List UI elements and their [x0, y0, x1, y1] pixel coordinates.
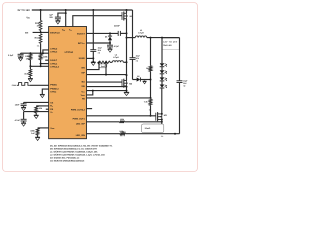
wire VREF	[38, 127, 49, 129]
wire SGND jog	[87, 91, 93, 95]
diode D1	[109, 33, 111, 36]
svg-text:7.3k: 7.3k	[144, 101, 149, 104]
wire LED link 2	[161, 74, 163, 78]
svg-text:EN: EN	[25, 31, 28, 34]
svg-text:L2: L2	[115, 53, 118, 56]
inductor L1 0.7uH	[135, 36, 147, 38]
ground for C4	[108, 48, 113, 50]
wire output node	[147, 37, 180, 39]
diode D2	[137, 77, 141, 81]
svg-text:CTRL3: CTRL3	[50, 51, 58, 54]
wire SS	[24, 101, 49, 103]
ground R12	[28, 78, 33, 80]
wire CTRL23	[30, 65, 48, 67]
capacitor C4 4.7uF	[109, 43, 111, 45]
PWM square wave symbol	[17, 83, 30, 86]
svg-text:×2: ×2	[183, 85, 185, 88]
svg-text:M2: M2	[129, 82, 133, 85]
svg-text:ISN: ISN	[81, 66, 85, 69]
wire fb col bottom	[150, 105, 152, 116]
ground for C1	[56, 20, 61, 22]
resistor R1 200k	[39, 21, 42, 31]
IC U1 LT3744 body	[49, 27, 87, 139]
svg-text:D2: D2	[137, 75, 139, 78]
wire fb col mid	[150, 71, 152, 98]
ground C7	[18, 57, 23, 59]
wire ISN	[87, 74, 127, 76]
svg-text:1%: 1%	[161, 135, 164, 138]
capacitor C9 4.7nF	[23, 112, 25, 120]
capacitor C5 10uF 50V x4	[130, 57, 136, 59]
resistor R9 100k	[39, 54, 42, 60]
capacitor C2 10uF 25V x2	[90, 49, 96, 51]
wire LED_ISN	[87, 133, 121, 135]
ground C9	[21, 122, 26, 124]
wire CTRL jog	[43, 50, 49, 53]
sense resistor box 5mOhm	[99, 64, 107, 68]
resistor R4 1k	[149, 66, 152, 72]
svg-text:D2: DIODES INC. PDS1040L-13: D2: DIODES INC. PDS1040L-13	[50, 157, 80, 160]
svg-text:1µF: 1µF	[49, 14, 53, 17]
svg-text:2.2µF: 2.2µF	[8, 54, 14, 57]
svg-text:4.7µF: 4.7µF	[114, 45, 120, 48]
ground C8	[21, 106, 26, 108]
resistor R7 100k	[120, 133, 125, 135]
LED D5	[160, 77, 165, 80]
svg-text:PWM2,3: PWM2,3	[50, 87, 59, 90]
wire SW to L1	[127, 37, 136, 39]
wire cap column top	[132, 10, 134, 58]
node VIN junction dots	[40, 9, 42, 11]
svg-text:FAULT: FAULT	[50, 59, 57, 62]
wire VIN rail	[32, 9, 133, 11]
wire LED string top	[161, 38, 163, 64]
svg-text:4.7nF: 4.7nF	[15, 119, 21, 122]
resistor R8 10k	[29, 54, 32, 60]
svg-text:25A LED: 25A LED	[163, 44, 172, 47]
ground D2	[144, 80, 146, 82]
wire SYNC	[42, 89, 48, 94]
svg-text:30.1k: 30.1k	[34, 36, 40, 39]
svg-text:EN/UVLO: EN/UVLO	[50, 31, 60, 34]
wire PWM_OUT23 stub	[87, 108, 93, 110]
resistor R2 30.1k	[39, 34, 42, 44]
svg-text:10nF: 10nF	[15, 103, 20, 106]
svg-text:5mΩ: 5mΩ	[101, 65, 106, 68]
svg-text:CTRL2,3: CTRL2,3	[50, 66, 59, 69]
node EN wire	[33, 31, 49, 33]
capacitor C8 10nF	[23, 102, 25, 104]
LED D6	[160, 85, 165, 88]
sense resistor box 20mOhm	[142, 124, 164, 133]
svg-text:L1: L1	[140, 29, 143, 32]
wire FAULT stub	[45, 59, 48, 61]
transistor M2	[121, 79, 123, 87]
wire LED to M3	[161, 88, 163, 114]
capacitor C1 1uF 25V	[55, 16, 61, 18]
ground R11	[35, 136, 40, 138]
svg-text:ISP: ISP	[81, 71, 85, 74]
svg-text:1nF: 1nF	[31, 132, 35, 135]
wire M3 source	[161, 120, 163, 125]
svg-text:PWM: PWM	[12, 84, 17, 87]
svg-text:SYNC: SYNC	[50, 91, 56, 94]
wire TG to M1 gate	[73, 16, 122, 27]
ground SYNC	[40, 93, 45, 95]
svg-text:1%: 1%	[37, 44, 40, 47]
resistor R5 7.32k	[149, 99, 152, 105]
resistor R11	[36, 128, 39, 135]
svg-text:×2: ×2	[98, 52, 100, 55]
svg-text:220nF: 220nF	[114, 25, 121, 28]
svg-text:0.7µH: 0.7µH	[138, 32, 144, 35]
wire VIN bypass drop	[92, 10, 94, 50]
capacitor C6 10uF	[177, 80, 183, 82]
svg-text:4.7µH: 4.7µH	[113, 56, 119, 59]
capacitor C7 2.2uF	[20, 53, 22, 54]
node M3 dots	[161, 113, 163, 115]
wire BG gate	[87, 81, 123, 83]
resistor R10 RT	[35, 106, 38, 113]
wire M1 drain	[126, 10, 128, 13]
svg-text:M1, M2: INFINEON BSC032NE2LS;: M1, M2: INFINEON BSC032NE2LS; M4, M5: VI…	[50, 144, 113, 147]
svg-text:3V TO 16V: 3V TO 16V	[17, 9, 30, 12]
wire BOOST	[87, 32, 119, 34]
wire to D2	[133, 79, 137, 81]
resistor R6 100k	[120, 121, 125, 123]
svg-text:12V TO 16V: 12V TO 16V	[163, 40, 178, 43]
LED D3	[160, 63, 165, 66]
svg-text:LT3744: LT3744	[65, 51, 74, 54]
resistor R3 5mOhm sense	[98, 61, 111, 63]
node SW dots	[126, 32, 128, 34]
wire fb col top	[150, 38, 152, 66]
wire INTVCC	[87, 42, 111, 44]
transistor M3	[155, 113, 157, 121]
wire LED_ISP pin	[87, 97, 151, 99]
wire PGND pin	[87, 90, 127, 92]
wire LED_ISP2 kelvin	[87, 121, 120, 123]
svg-text:100k: 100k	[120, 118, 125, 121]
wire LED link 1	[161, 66, 163, 70]
wire VC	[24, 111, 49, 113]
wire CTRL1	[41, 63, 49, 65]
inductor L2 4.7uH	[112, 61, 123, 63]
svg-text:CTRL1: CTRL1	[50, 62, 58, 65]
svg-text:L2: WÜRTH ELEKTRONIK 744325120: L2: WÜRTH ELEKTRONIK 744325120, 1.2µH, 1…	[50, 154, 105, 157]
svg-text:C6: MURATA GRM32ER61E226KE15: C6: MURATA GRM32ER61E226KE15	[50, 160, 85, 163]
wire sense mid	[110, 61, 112, 63]
wire ISN kelvin up	[105, 62, 107, 74]
svg-text:LED_ISN: LED_ISN	[76, 134, 85, 137]
resistor R12 30.9k	[29, 66, 31, 69]
wire sense to SW	[123, 61, 126, 63]
transistor M1	[121, 12, 123, 20]
ground M2	[124, 91, 129, 93]
wire VIN pin drop	[65, 10, 67, 27]
svg-text:BOOST: BOOST	[77, 32, 85, 35]
svg-text:10k: 10k	[39, 107, 43, 110]
svg-text:M3: INFINEON BSC093N04LS G; D1: M3: INFINEON BSC093N04LS G; D1: CMDSH-3T…	[50, 147, 97, 150]
svg-text:L1: WÜRTH ELEKTRONIK 744309025: L1: WÜRTH ELEKTRONIK 744309025, 0.25µH, …	[50, 151, 98, 154]
svg-text:FB: FB	[82, 98, 85, 101]
wire SW column	[126, 19, 128, 81]
wire LED link 3	[161, 81, 163, 85]
wire GND pin	[87, 57, 94, 59]
wire PWM_OUT1 gate	[87, 115, 156, 117]
wire PWM1	[30, 84, 49, 86]
svg-text:M3: M3	[164, 114, 168, 117]
svg-text:FB: FB	[50, 108, 53, 111]
wire 1uF stub	[58, 13, 66, 17]
wire RT	[36, 105, 48, 107]
svg-text:LED_ISP: LED_ISP	[76, 122, 85, 125]
svg-text:BG: BG	[82, 81, 86, 84]
wire SW pin	[87, 86, 127, 88]
svg-text:1%: 1%	[26, 58, 29, 61]
wire CTRL rail	[21, 52, 49, 54]
svg-text:30.9k: 30.9k	[24, 73, 30, 76]
svg-text:SGND: SGND	[79, 57, 86, 60]
svg-text:1%: 1%	[37, 25, 40, 28]
svg-text:20mΩ: 20mΩ	[145, 127, 151, 130]
svg-text:VIN: VIN	[26, 16, 30, 19]
svg-text:PWM1: PWM1	[50, 84, 57, 87]
svg-text:D1: D1	[105, 36, 108, 39]
wire M2 source	[126, 86, 128, 92]
wire return column	[179, 38, 181, 81]
capacitor C3 220nF	[117, 31, 119, 36]
LED D4	[160, 70, 165, 73]
wire ISP kelvin	[87, 62, 100, 69]
svg-text:100k: 100k	[43, 55, 48, 58]
ground R10	[34, 114, 39, 116]
svg-text:PWM_OUT2,3: PWM_OUT2,3	[71, 108, 86, 111]
LED load box	[162, 39, 180, 50]
wire R7 to box	[125, 133, 179, 135]
svg-text:PWM_OUT1: PWM_OUT1	[73, 117, 86, 120]
svg-text:CTRL2: CTRL2	[50, 47, 58, 50]
wire FB stub	[46, 108, 49, 110]
svg-text:25V: 25V	[49, 16, 53, 19]
ground power	[91, 61, 96, 63]
svg-text:100k: 100k	[30, 129, 35, 132]
